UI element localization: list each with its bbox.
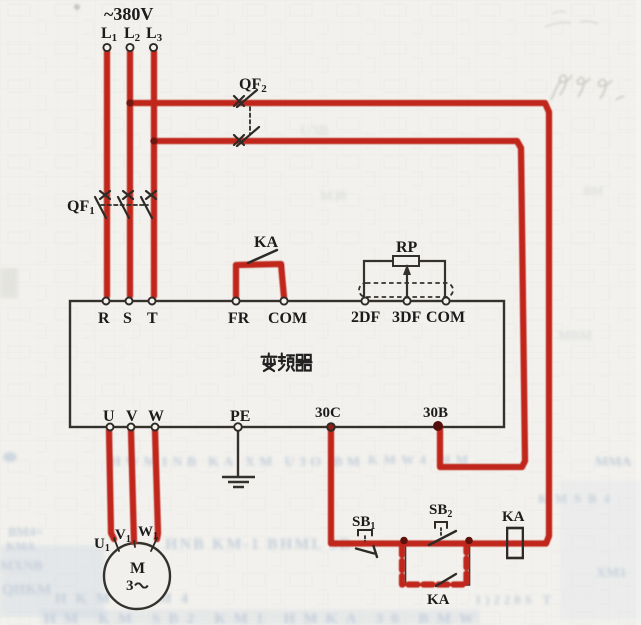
svg-text:T: T: [147, 310, 158, 327]
svg-text:HNB KM-1 BHML 3B: HNB KM-1 BHML 3B: [165, 536, 350, 553]
svg-text:PE: PE: [230, 408, 250, 425]
svg-text:2DF: 2DF: [351, 309, 381, 326]
svg-text:3: 3: [126, 578, 134, 594]
svg-text:KA: KA: [254, 234, 278, 251]
svg-text:MMA: MMA: [595, 455, 632, 470]
svg-text:U: U: [103, 408, 115, 425]
svg-text:S: S: [123, 310, 132, 327]
svg-text:BM4=: BM4=: [8, 524, 43, 539]
svg-text:3DF: 3DF: [392, 309, 422, 326]
svg-text:U3B: U3B: [300, 123, 328, 139]
svg-text:BM: BM: [583, 183, 604, 198]
svg-text:COM: COM: [426, 309, 465, 326]
svg-text:~380V: ~380V: [104, 4, 153, 24]
svg-text:V: V: [126, 408, 138, 425]
svg-text:FR: FR: [228, 310, 250, 327]
svg-text:R: R: [98, 310, 110, 327]
svg-text:M: M: [130, 560, 145, 577]
svg-text:M38: M38: [320, 189, 346, 204]
svg-text:KA: KA: [502, 509, 525, 525]
svg-text:COM: COM: [268, 310, 307, 327]
svg-text:W: W: [148, 408, 164, 425]
svg-text:RP: RP: [396, 239, 418, 256]
svg-text:MBM: MBM: [558, 329, 593, 344]
svg-text:30C: 30C: [315, 405, 341, 421]
svg-text:30B: 30B: [423, 405, 448, 421]
svg-text:KA: KA: [427, 592, 450, 608]
